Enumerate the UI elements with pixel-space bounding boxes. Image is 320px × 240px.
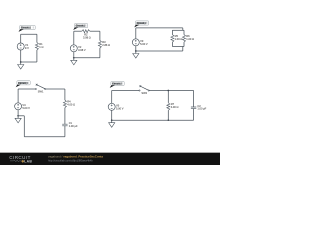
node label callout Circuit_3 <box>134 21 149 28</box>
wire right upper circuit1 <box>36 34 38 42</box>
wire bottom circuit4 <box>24 136 65 138</box>
wire top-left circuit5 <box>112 90 139 92</box>
svg-text:1.00 Ω: 1.00 Ω <box>175 37 183 41</box>
ground circuit4 <box>15 116 21 123</box>
wire top-left circuit2 <box>74 30 82 32</box>
svg-text:3.08 V: 3.08 V <box>78 48 86 52</box>
resistor R2 <box>82 30 91 40</box>
wire return upper circuit4 <box>18 115 24 117</box>
wire top-right circuit2 <box>90 30 100 32</box>
svg-text:SW1: SW1 <box>38 90 44 94</box>
wire right upper circuit2 <box>99 31 101 40</box>
wire top-right circuit4 <box>46 88 65 90</box>
node label callout Circuit_4 <box>16 81 31 88</box>
wire left lower circuit3 <box>135 46 137 51</box>
svg-text:LAB: LAB <box>24 160 32 164</box>
wire bottom circuit3 <box>136 50 183 52</box>
switch SW2 <box>139 85 149 95</box>
wire bottom circuit1 <box>21 61 37 63</box>
junction circuit1 ground node <box>20 61 22 63</box>
capacitor C1 <box>62 121 78 128</box>
node label callout Circuit_1 <box>19 25 36 32</box>
voltage source V4 <box>15 103 31 110</box>
node label callout Circuit_5 <box>110 81 125 88</box>
wire left upper circuit4 <box>17 89 19 103</box>
junction circuit5 ground node <box>111 119 113 121</box>
svg-text:5.00 V: 5.00 V <box>22 106 30 110</box>
wire top circuit1 <box>21 33 37 35</box>
voltage source V2 <box>70 45 86 52</box>
wire left lower circuit1 <box>20 50 22 62</box>
junction circuit5 bottom node <box>167 119 169 121</box>
svg-text:1.00 µF: 1.00 µF <box>197 107 206 111</box>
resistor R4 <box>63 99 75 107</box>
resistor R1 <box>35 42 43 50</box>
voltage source V5 <box>108 103 124 110</box>
resistor R3 <box>98 40 110 48</box>
junction circuit4 ground node <box>17 115 19 117</box>
wire right upper circuit4 <box>64 89 66 100</box>
wire bottom bar circuit3 <box>172 46 184 48</box>
wire right middle circuit4 <box>64 108 66 125</box>
wire left lower circuit5 <box>111 110 113 120</box>
voltage source V3 <box>132 39 148 46</box>
ground circuit2 <box>71 58 77 65</box>
wire right lower circuit4 <box>64 126 66 137</box>
wire left upper circuit1 <box>20 34 22 43</box>
wire return vertical circuit4 <box>23 116 25 137</box>
CircuitLab logo <box>9 155 32 164</box>
svg-text:vagabond / vagabond_PracticeSe: vagabond / vagabond_PracticeSecConta <box>48 155 103 159</box>
svg-text:1 Ω: 1 Ω <box>39 45 43 49</box>
capacitor C2 <box>191 104 207 111</box>
wire top bar circuit3 <box>172 29 184 31</box>
wire left upper circuit2 <box>73 31 75 45</box>
wire left upper circuit3 <box>135 28 137 39</box>
wire R6 top lead <box>183 30 185 34</box>
svg-text:5.00 V: 5.00 V <box>116 106 124 110</box>
wire R5 top lead <box>171 30 173 34</box>
wire R6 bottom lead <box>183 42 185 46</box>
resistor R6 <box>183 34 195 42</box>
switch SW1 <box>35 84 46 94</box>
svg-text:4.00 Ω: 4.00 Ω <box>67 103 75 107</box>
wire left lower circuit2 <box>73 52 75 58</box>
wire top circuit3 <box>136 27 183 29</box>
wire stub bottom circuit3 <box>182 47 184 52</box>
wire left lower circuit4 <box>17 110 19 116</box>
resistor R5 <box>171 34 182 42</box>
footer watermark bar <box>0 153 220 165</box>
wire bottom circuit5 <box>112 119 194 121</box>
wire bottom circuit2 <box>74 57 100 59</box>
svg-text:3.08 Ω: 3.08 Ω <box>83 36 91 40</box>
wire left upper circuit5 <box>111 91 113 104</box>
junction circuit3 ground node <box>135 50 137 52</box>
resistor R7 <box>167 102 179 110</box>
wire R7 bottom lead <box>167 110 169 120</box>
wire right upper circuit5 <box>193 91 195 108</box>
footer credit text <box>48 155 103 163</box>
svg-text:1.00 µF: 1.00 µF <box>69 124 78 128</box>
svg-text:SW2: SW2 <box>141 91 147 95</box>
ground circuit1 <box>18 62 24 69</box>
svg-text:http://circuitlab.com/c/8pu28f: http://circuitlab.com/c/8pu28f5awz4k4b <box>48 158 93 162</box>
wire top-right circuit5 <box>149 90 193 92</box>
wire stub top circuit3 <box>182 28 184 30</box>
junction circuit2 ground node <box>73 57 75 59</box>
svg-text:1.00 Ω: 1.00 Ω <box>186 37 194 41</box>
wire right lower circuit2 <box>99 48 101 58</box>
wire right lower circuit5 <box>193 109 195 121</box>
wire R7 top lead <box>167 91 169 103</box>
junction circuit5 top node <box>167 90 169 92</box>
svg-text:9 V: 9 V <box>25 46 29 50</box>
ground circuit5 <box>109 120 115 127</box>
svg-text:5.00 V: 5.00 V <box>140 42 148 46</box>
voltage source V1 <box>17 43 29 50</box>
wire R5 bottom lead <box>171 42 173 46</box>
wire top-left circuit4 <box>18 88 35 90</box>
ground circuit3 <box>133 51 139 58</box>
svg-text:4.00 Ω: 4.00 Ω <box>171 105 179 109</box>
svg-text:2.86 Ω: 2.86 Ω <box>102 43 110 47</box>
wire right lower circuit1 <box>36 50 38 62</box>
node label callout Circuit_2 <box>73 24 88 31</box>
